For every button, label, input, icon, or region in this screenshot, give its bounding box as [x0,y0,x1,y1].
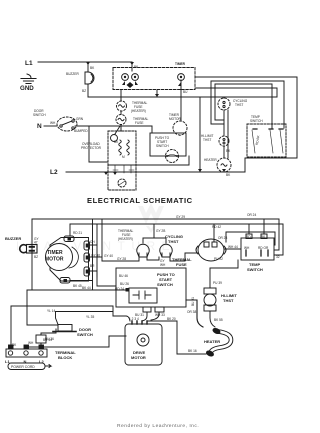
svg-text:BK: BK [226,149,231,153]
svg-text:WH: WH [244,246,250,250]
motor centrifugal switch [118,179,126,187]
wire heat bypass [227,110,229,158]
svg-text:SWITCH: SWITCH [250,119,263,123]
door switch (schematic) [57,117,77,131]
junction ticks L2 [104,172,117,175]
svg-text:RD BK: RD BK [255,134,261,145]
svg-text:THST: THST [235,103,243,107]
svg-text:BU: BU [183,90,188,94]
drive motor tab wires [113,312,159,321]
svg-text:WH: WH [50,121,56,125]
nested right wire D [195,88,277,97]
svg-text:GND: GND [20,85,34,92]
svg-text:GY 2B: GY 2B [156,229,165,233]
svg-text:THST: THST [203,138,211,142]
timer motor right terminal 1 [84,241,90,250]
svg-text:MOTOR: MOTOR [45,257,64,263]
hi-limit thermostat (bottom) [204,288,216,294]
wire GY28 [102,257,139,261]
hi-limit thermostat (schematic) [219,136,229,146]
svg-text:WH 44: WH 44 [228,245,238,249]
svg-text:L1: L1 [25,60,33,67]
wire heater to L2 bus [223,171,225,173]
svg-text:BLOCK: BLOCK [58,355,72,360]
svg-text:HEATER: HEATER [204,158,217,162]
nested right wire A [195,77,297,172]
wire N drop to push start [151,126,153,133]
buzzer BZ [85,72,94,84]
svg-text:BZ: BZ [34,255,38,259]
svg-text:GY 40: GY 40 [104,254,113,258]
hi-limit down wire [210,311,215,327]
timer motor top terminal [64,236,74,242]
motor centrifugal contacts [115,165,131,173]
timer motor [173,121,187,135]
vertical bus x97 [97,224,116,286]
watermark logo [138,203,164,233]
timer motor (bottom) body [50,238,89,282]
ground [20,74,36,92]
svg-text:N: N [37,123,42,130]
terminal block [6,349,47,357]
svg-text:BU 26: BU 26 [120,282,129,286]
timer motor bottom terminal [60,278,70,284]
thermal fuse htr (bottom) 1 [137,244,149,257]
push start inner contacts [129,288,157,303]
push start bottom tabs [143,307,151,312]
timer contact arrows [122,81,138,85]
door switch wires (bottom) [11,306,113,312]
svg-text:BK 55: BK 55 [214,318,223,322]
svg-text:RD: RD [246,235,251,239]
svg-text:ELECTRICAL SCHEMATIC: ELECTRICAL SCHEMATIC [87,196,193,205]
timer contact 2 [132,74,139,81]
svg-text:PROTECTOR: PROTECTOR [81,146,102,150]
cycling to temp switch [224,248,241,250]
svg-text:POWER CORD: POWER CORD [11,365,35,369]
svg-text:OR 24: OR 24 [247,213,256,217]
svg-text:GRN: GRN [76,117,84,121]
svg-text:WH: WH [28,341,34,345]
motor winding 1 [119,140,122,155]
push to start switch box (schematic) [150,133,186,156]
nested right wire C [215,84,272,128]
svg-text:PU 39: PU 39 [213,281,222,285]
timer motor rotor circle [46,244,73,271]
svg-text:THST: THST [223,298,234,303]
wire N continues [75,125,152,127]
cycling thermostat (bottom) [198,239,224,261]
fuse2 to cycling [170,253,198,261]
svg-text:YL 35: YL 35 [86,315,94,319]
svg-text:BR 34: BR 34 [43,338,52,342]
N return vertical [199,97,201,172]
timer contact 1 [122,74,129,81]
svg-text:LEADVENTURE: LEADVENTURE [16,239,176,253]
wire L2 bus [66,171,245,173]
nested right wire B [211,81,284,128]
svg-text:TIMER: TIMER [47,250,63,256]
wire L1 into timer [131,62,133,71]
push to start contact circle [166,150,179,163]
thermal fuse htr (bottom) 2 [160,244,172,257]
vertical bus x92 [92,219,94,290]
wire cycling to hi-limit [223,110,225,136]
svg-text:SWITCH: SWITCH [77,332,93,337]
wire timer contact2 drop [156,90,158,98]
bus A [32,219,279,250]
heater bottom wire [177,353,206,355]
N terminal route [26,336,126,349]
temp switch box (schematic, dashed) [247,124,286,157]
wire N drop to motor bottom [89,126,108,162]
svg-text:BK: BK [134,65,139,69]
svg-text:FUSE: FUSE [176,262,187,267]
timer contact 3 [178,74,185,81]
wire L1 bus [38,61,132,63]
svg-text:BK: BK [90,66,95,70]
svg-text:BK 44: BK 44 [82,286,91,290]
overload protector [111,135,118,142]
door switch (bottom) [58,325,72,332]
svg-text:MOTOR: MOTOR [169,117,182,121]
timer motor right terminal 2 [84,253,90,262]
drive motor box (schematic, dashed) [108,131,136,190]
timer motor cam curve [69,247,78,268]
svg-text:BZ: BZ [82,89,86,93]
svg-text:L2: L2 [50,169,58,176]
vertical bus x102 [101,219,103,261]
svg-text:BK 16: BK 16 [188,349,197,353]
terminal block bolts [9,345,14,349]
svg-text:HEATER: HEATER [204,339,220,344]
L1 terminal feed [10,306,12,349]
junction ticks on L2 bus [198,169,226,172]
svg-text:WH: WH [160,263,166,267]
svg-text:47: 47 [34,241,38,245]
svg-text:(HEATER): (HEATER) [118,237,133,241]
svg-text:BK: BK [226,173,231,177]
svg-text:GY 28: GY 28 [117,257,126,261]
thermal fuse (heater) [117,101,127,111]
svg-text:SWITCH: SWITCH [33,113,46,117]
temp switch (bottom) [241,238,274,260]
heater (bottom) [211,332,232,354]
svg-text:BK 20: BK 20 [167,317,176,321]
svg-text:(HEATER): (HEATER) [131,109,146,113]
svg-text:BU 31: BU 31 [191,297,195,306]
svg-text:SWITCH: SWITCH [157,282,173,287]
temp switch right feed OR23 [226,232,275,245]
wire buzzer to push-start [27,289,129,291]
junction tick L1/buzzer [86,62,134,65]
svg-text:BU 46: BU 46 [119,274,128,278]
buzzer BZ drop wire [87,62,89,97]
heater (schematic) [217,158,231,172]
BR34 wire [186,300,203,327]
svg-text:BUZZER: BUZZER [5,236,21,241]
wire push start right side [108,156,189,165]
temp switch blades [252,130,283,153]
wire timer contact3 down to timer motor [180,80,182,121]
power cord [8,363,45,370]
svg-text:OR 38: OR 38 [187,310,196,314]
buzzer feed wire [31,219,33,290]
svg-text:Rendered by LeadVenture, Inc.: Rendered by LeadVenture, Inc. [117,423,199,429]
svg-text:MOTOR: MOTOR [131,355,146,360]
motor winding 2 [127,140,130,155]
svg-text:YL 14: YL 14 [47,309,55,313]
wire N [44,125,57,127]
svg-text:BUZZER: BUZZER [66,72,79,76]
svg-text:WH 33: WH 33 [155,313,165,317]
svg-text:TIMER: TIMER [175,62,186,66]
svg-text:32: 32 [276,255,280,259]
svg-text:BK 45: BK 45 [73,284,82,288]
cycling thermostat feed [223,97,225,98]
svg-text:RD 24: RD 24 [115,287,124,291]
bus B [70,224,283,255]
BK20 wire [147,321,177,354]
overload protector arm [115,126,120,134]
timer motor right terminal 3 [84,267,90,276]
wire thermal fuse chain [120,90,122,132]
svg-text:GY 29: GY 29 [176,215,185,219]
svg-text:SWITCH: SWITCH [247,267,263,272]
L2 terminal connector [36,335,46,343]
temp sw to hi-limit [210,260,238,288]
svg-text:RD 42: RD 42 [212,225,221,229]
svg-text:1 2 3 4: 1 2 3 4 [129,317,139,321]
svg-text:BUMPED: BUMPED [74,129,88,133]
drive motor top tabs [132,321,147,324]
svg-text:RD OR: RD OR [258,246,269,250]
fuse top links [143,224,166,243]
svg-text:PU 22: PU 22 [214,257,223,261]
wire hi-limit to heater [223,146,225,158]
fuse interlink [147,257,159,260]
svg-text:THST: THST [168,239,179,244]
timer motor to push-start box [179,134,181,137]
drive motor (bottom) [125,324,162,365]
thermal fuse [116,115,126,125]
svg-text:RD 21: RD 21 [73,231,82,235]
push to start switch (bottom) [116,268,186,307]
wire buzzer bottom bus [88,96,277,98]
svg-text:M: M [122,155,125,159]
svg-text:SWITCH: SWITCH [156,144,169,148]
cycling thermostat [218,98,230,110]
svg-text:FUSE: FUSE [135,121,144,125]
timer box (dashed) [113,68,195,90]
svg-text:BK: BK [114,140,119,144]
